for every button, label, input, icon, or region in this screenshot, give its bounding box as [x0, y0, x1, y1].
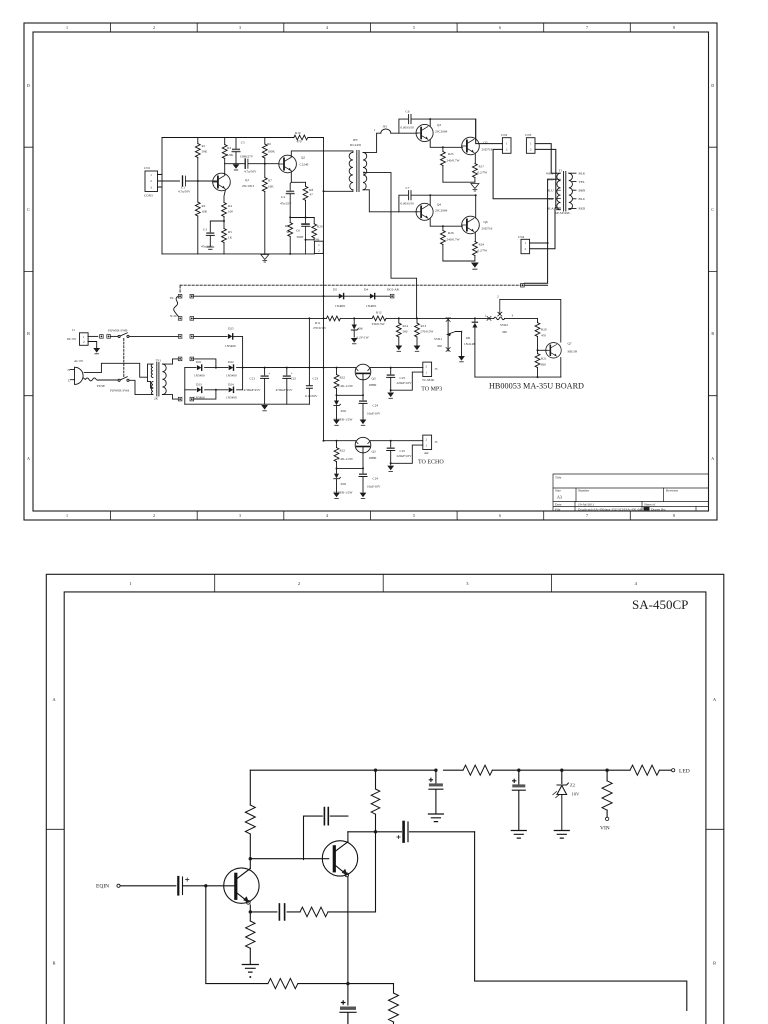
resistor R5 bottom: [268, 978, 298, 988]
resistor R3: [222, 145, 227, 159]
resistor R23 reg2: [336, 441, 338, 448]
svg-text:N.20: N.20: [170, 314, 177, 318]
svg-text:ZD1: ZD1: [341, 409, 347, 413]
svg-text:1: 1: [66, 513, 68, 518]
svg-text:6: 6: [499, 513, 501, 518]
svg-text:D21: D21: [196, 360, 202, 364]
capacitor C4: [286, 191, 294, 194]
svg-text:CN1: CN1: [144, 166, 151, 170]
svg-text:R2: R2: [202, 204, 206, 208]
transistor Q4 2SC2064: [416, 203, 433, 220]
wire Q2 emitter column: [347, 877, 349, 1005]
capacitor C23: [308, 318, 310, 404]
svg-text:HB00053 MA-35U BOARD: HB00053 MA-35U BOARD: [489, 381, 584, 391]
svg-text:1: 1: [525, 241, 527, 245]
svg-text:+: +: [269, 372, 271, 376]
resistor R13: [416, 318, 418, 323]
svg-text:YLW: YLW: [547, 197, 555, 201]
svg-text:D23: D23: [196, 382, 202, 386]
wire pp lower bottom rail: [443, 260, 475, 262]
sheet1 margin column ticks: [111, 23, 631, 520]
svg-text:100: 100: [228, 210, 233, 214]
resistor R26: [442, 226, 444, 230]
svg-text:C4: C4: [281, 195, 285, 199]
resistor R8: [305, 182, 307, 186]
svg-text:2SC2064: 2SC2064: [435, 130, 448, 134]
resistor R8 VIN: [605, 769, 608, 772]
svg-text:7: 7: [586, 513, 588, 518]
svg-text:R5: R5: [228, 230, 232, 234]
capacitor C7: [517, 769, 520, 772]
svg-text:1N5400: 1N5400: [226, 396, 237, 400]
svg-text:2SD718: 2SD718: [482, 148, 493, 152]
svg-text:1N5400: 1N5400: [194, 396, 205, 400]
connector CN1: [145, 171, 158, 192]
capacitor C2: [244, 159, 246, 168]
resistor R1: [195, 144, 200, 158]
squiggle wire row1-row2: [174, 296, 179, 316]
svg-text:C6: C6: [406, 110, 410, 114]
potentiometer SVR1: [447, 320, 449, 350]
svg-text:2K: 2K: [154, 397, 159, 401]
svg-text:100K: 100K: [268, 150, 276, 154]
svg-text:1: 1: [530, 142, 532, 146]
svg-text:10uF/10V: 10uF/10V: [367, 412, 381, 416]
svg-text:D: D: [711, 83, 714, 88]
svg-text:C3: C3: [203, 228, 207, 232]
svg-text:560: 560: [403, 330, 408, 334]
resistor R6 bottom right: [393, 984, 395, 993]
wire fuse to SWA: [98, 379, 118, 381]
svg-text:5: 5: [413, 25, 415, 30]
svg-text:2: 2: [153, 25, 155, 30]
svg-text:D: D: [27, 83, 30, 88]
zener ZD2 reg2: [334, 474, 339, 479]
transistor Q8 D880 reg1: [355, 364, 371, 380]
svg-text:R20: R20: [541, 328, 547, 332]
sheet2 outer border frame: [46, 574, 724, 1024]
svg-text:LED: LED: [679, 769, 690, 775]
svg-text:J3: J3: [435, 367, 438, 371]
svg-text:56: 56: [286, 230, 290, 234]
resistor R22 reg1: [336, 368, 338, 375]
svg-text:3: 3: [239, 25, 241, 30]
wire Q7 bottom rail: [475, 376, 561, 378]
capacitor C4 feedback: [279, 904, 284, 920]
resistor R9: [288, 223, 293, 237]
svg-text:FUSE: FUSE: [97, 384, 105, 388]
resistor R3 emitter: [246, 921, 255, 948]
svg-text:2: 2: [506, 148, 508, 152]
svg-text:Number: Number: [578, 489, 590, 493]
svg-text:D24: D24: [228, 382, 234, 386]
svg-text:1N5400: 1N5400: [226, 374, 237, 378]
svg-text:220uF/10V: 220uF/10V: [397, 381, 413, 385]
svg-text:R8: R8: [309, 188, 313, 192]
svg-text:D5: D5: [333, 288, 337, 292]
svg-text:4: 4: [635, 581, 638, 586]
svg-text:Size: Size: [555, 489, 561, 493]
wire CN3 pin2 to T1: [535, 149, 557, 208]
wire Q5 emitter / resistor R17: [474, 153, 476, 164]
wire bottom ground rail: [185, 403, 310, 405]
svg-text:3: 3: [466, 581, 469, 586]
svg-text:D25: D25: [228, 327, 234, 331]
connector squares row2: [178, 317, 182, 321]
capacitor C26 reg2: [359, 473, 367, 476]
svg-text:C23: C23: [313, 377, 319, 381]
svg-text:D6: D6: [359, 327, 363, 331]
diode D6 1N4148: [474, 318, 476, 322]
svg-text:2SC2064: 2SC2064: [435, 209, 448, 213]
transformer TP1 core: [157, 363, 159, 397]
resistor R19: [313, 218, 315, 224]
svg-text:240/0.7W: 240/0.7W: [447, 159, 461, 163]
wire row5 right to bridge: [194, 390, 216, 399]
svg-text:47: 47: [310, 193, 314, 197]
wire output line: [348, 831, 475, 833]
svg-text:DC IN: DC IN: [67, 337, 77, 341]
switch POWER SWB: [118, 335, 120, 337]
svg-text:BRN: BRN: [579, 189, 586, 193]
wire CN3 pin1 to T1: [535, 144, 557, 174]
transistor Q1 2SC1815: [213, 173, 231, 191]
wire T1 left taps: [557, 179, 561, 208]
resistor R14: [398, 318, 400, 323]
wire Q7 emitter down: [560, 358, 562, 378]
svg-text:1N4001: 1N4001: [335, 304, 346, 308]
wire Q6 emitter / resistor R24: [474, 232, 476, 242]
svg-text:SVR2: SVR2: [500, 323, 508, 327]
svg-text:B: B: [52, 961, 55, 966]
resistor R7 rail: [444, 769, 464, 771]
transistor Q5 2SD718: [462, 137, 480, 155]
wire R9/R8 node: [290, 217, 314, 219]
svg-text:Q2: Q2: [301, 156, 305, 160]
resistor R1 collector load: [249, 834, 251, 859]
resistor R4 feedback: [300, 907, 328, 917]
svg-text:3: 3: [512, 314, 514, 318]
svg-text:2: 2: [461, 330, 463, 334]
svg-text:C7: C7: [406, 186, 410, 190]
transistor Q3 2SC2064: [416, 124, 433, 141]
Miller capacitor C2: [304, 816, 348, 860]
wire Q1 emitter column: [224, 190, 226, 203]
svg-text:2: 2: [83, 340, 85, 344]
wire Q6 collector up: [475, 195, 477, 218]
svg-text:JP1: JP1: [383, 125, 388, 129]
wire to IPT primary bottom: [324, 190, 353, 192]
svg-text:8: 8: [673, 25, 675, 30]
wire plug top to TP1: [84, 363, 153, 381]
svg-text:A: A: [52, 697, 56, 702]
svg-text:D880: D880: [369, 456, 377, 460]
resistor R5: [222, 229, 227, 243]
resistor R10: [294, 135, 308, 140]
wire C27 to J3 pin1: [391, 445, 423, 463]
svg-text:R4: R4: [228, 204, 232, 208]
svg-text:10K: 10K: [202, 210, 208, 214]
zener D6 6.2V: [353, 318, 355, 324]
svg-text:Q6: Q6: [484, 220, 488, 224]
svg-text:2: 2: [298, 581, 300, 586]
wire B+ vertical feed: [323, 138, 325, 297]
svg-text:R14: R14: [403, 324, 409, 328]
svg-text:R22: R22: [340, 376, 346, 380]
svg-text:820: 820: [541, 363, 546, 367]
svg-text:AR: AR: [424, 451, 429, 455]
svg-text:C24: C24: [373, 477, 379, 481]
wire TP1 secondary top to row4: [162, 359, 178, 364]
svg-text:YEL: YEL: [579, 180, 585, 184]
svg-text:4.7u/50V: 4.7u/50V: [244, 170, 257, 174]
svg-text:D22: D22: [228, 360, 234, 364]
svg-text:R20: R20: [317, 225, 323, 229]
svg-text:1: 1: [426, 444, 428, 448]
switch POWER SWA: [118, 379, 120, 381]
resistor R9 LED: [607, 769, 630, 771]
AC plug: [75, 367, 84, 384]
resistor R20: [537, 318, 539, 322]
svg-text:5.9K: 5.9K: [227, 153, 234, 157]
svg-text:BLA: BLA: [547, 206, 554, 210]
svg-text:270/0.5W: 270/0.5W: [420, 330, 434, 334]
svg-text:POWER SWB: POWER SWB: [108, 329, 128, 333]
svg-text:2: 2: [153, 513, 155, 518]
wire reg1 rail: [324, 367, 423, 369]
capacitor C21: [264, 368, 266, 376]
svg-text:3: 3: [150, 185, 152, 189]
wire Q9 emitter column: [362, 453, 364, 473]
svg-text:47u/25V: 47u/25V: [280, 202, 292, 206]
transistor Q2: [322, 841, 357, 876]
svg-text:Z2: Z2: [570, 783, 575, 788]
ground C21: [261, 405, 268, 411]
svg-text:1: 1: [83, 335, 85, 339]
wire SWB to row3: [129, 335, 178, 337]
wire to switch SWB: [110, 335, 118, 337]
wire base feedback bottom line: [206, 886, 394, 984]
connector CN2: [502, 138, 511, 154]
svg-text:CN4: CN4: [518, 235, 525, 239]
svg-text:0.0033/50: 0.0033/50: [401, 202, 415, 206]
transformer IPT core: [357, 151, 359, 192]
svg-text:D:\gjb-pcb\SA-450dsps-35U\SCH\: D:\gjb-pcb\SA-450dsps-35U\SCH\SA-450.ddb: [578, 507, 642, 511]
transformer TP1 primary coil: [151, 364, 153, 394]
sheet1 margin numbers and letters: [27, 25, 714, 518]
wire row1 line: [194, 295, 390, 297]
transformer T1 left coil: [557, 173, 561, 210]
svg-text:AC IN: AC IN: [74, 359, 84, 363]
svg-text:BD139: BD139: [568, 350, 578, 354]
svg-text:2: 2: [426, 438, 428, 442]
wire Q2 emitter column: [290, 171, 291, 190]
capacitor C6 0.0033 top: [399, 119, 476, 133]
svg-text:2SD716: 2SD716: [482, 227, 493, 231]
svg-text:0.0033/50: 0.0033/50: [401, 126, 415, 130]
svg-text:1: 1: [374, 128, 376, 132]
sheet2 inner border frame: [64, 592, 706, 1024]
wire top rail: [250, 769, 436, 771]
resistor R11: [326, 316, 340, 321]
wire T1 RED down to dashed node: [524, 179, 556, 283]
svg-text:J1: J1: [72, 328, 75, 332]
svg-text:59K: 59K: [202, 150, 208, 154]
svg-text:EQIN: EQIN: [96, 884, 109, 890]
title block texts: [555, 476, 678, 512]
capacitor C3 output coupling: [402, 822, 405, 842]
svg-text:R24: R24: [479, 243, 485, 247]
connector squares row1: [178, 294, 182, 298]
wire SVR2 top loop to Q7 collector: [500, 299, 561, 342]
svg-text:R10: R10: [295, 131, 301, 135]
svg-text:0.1u/50V: 0.1u/50V: [305, 394, 318, 398]
svg-text:A: A: [711, 456, 714, 461]
wire bridge lower row: [185, 368, 243, 390]
wire T1 right stubs: [569, 173, 576, 208]
wire SWA to TP1 bottom: [129, 380, 153, 394]
svg-text:Sheet of: Sheet of: [644, 503, 656, 507]
power rail right: capacitor C6: [434, 769, 437, 772]
wire CN4 pin1: [530, 242, 548, 244]
svg-text:D6: D6: [466, 336, 470, 340]
svg-text:C24: C24: [373, 404, 379, 408]
ground hollow arrow bottom: [261, 255, 269, 263]
wire bridge upper row: [185, 367, 324, 369]
svg-text:Q3: Q3: [372, 450, 376, 454]
capacitor C7 0.0033 bottom: [399, 195, 476, 212]
capacitor C5: [235, 138, 237, 164]
svg-text:2: 2: [318, 249, 320, 253]
wire to C3: [210, 221, 224, 232]
svg-text:10uF/10V: 10uF/10V: [367, 485, 381, 489]
wire C1 to Q1 base: [186, 180, 217, 182]
wire row4 right to bridge: [194, 359, 216, 368]
svg-text:T1: T1: [559, 169, 563, 173]
svg-text:270/0.5W: 270/0.5W: [313, 326, 327, 330]
connector square pair J1: [100, 335, 104, 339]
wire T1 BLA down to CN4: [530, 208, 555, 249]
sheet2 margin ticks: [46, 574, 724, 829]
svg-text:R11: R11: [315, 321, 321, 325]
wire C1 to Q1 base: [183, 885, 236, 887]
svg-text:Title: Title: [555, 476, 562, 480]
wire IPT secondary bottom down: [363, 190, 417, 212]
svg-text:1N4001: 1N4001: [366, 304, 377, 308]
svg-text:R22: R22: [340, 449, 346, 453]
svg-text:Q1: Q1: [245, 178, 249, 182]
connector J1 DC IN: [80, 333, 89, 346]
node LED: [672, 769, 675, 772]
svg-text:R25: R25: [448, 152, 454, 156]
ground Q1 emitter: [242, 965, 258, 973]
svg-text:2: 2: [150, 179, 152, 183]
svg-text:R21: R21: [541, 357, 547, 361]
fuse: [83, 378, 98, 381]
svg-text:4: 4: [326, 25, 328, 30]
svg-text:Revision: Revision: [666, 489, 678, 493]
diode D5: [339, 294, 344, 299]
connector CN4: [521, 239, 530, 253]
svg-text:R13: R13: [421, 324, 427, 328]
wire Q1 collector column: [249, 859, 251, 869]
svg-text:4: 4: [326, 513, 328, 518]
svg-text:ID-2435: ID-2435: [350, 143, 362, 147]
svg-text:2: 2: [530, 148, 532, 152]
connector squares row5: [178, 397, 182, 401]
wire Q3 emitter to Q5 base: [430, 140, 462, 148]
capacitor C1: [182, 176, 184, 186]
zener Z1: [519, 769, 607, 771]
svg-text:A: A: [27, 456, 30, 461]
svg-text:POWER SWA: POWER SWA: [110, 389, 130, 393]
svg-text:1: 1: [318, 243, 320, 247]
svg-text:IPT: IPT: [353, 138, 358, 142]
svg-text:R7: R7: [268, 179, 272, 183]
svg-text:TP1: TP1: [156, 359, 162, 363]
potentiometer SVR2: [489, 317, 538, 319]
svg-text:TC-M3K: TC-M3K: [422, 378, 435, 382]
svg-text:7: 7: [586, 25, 588, 30]
svg-text:C2240: C2240: [300, 163, 309, 167]
transistor Q2 C2240: [279, 155, 297, 173]
wire IPT secondary tap to B line: [365, 173, 417, 319]
wire Q1 collector up: [224, 164, 226, 175]
svg-text:2: 2: [426, 365, 428, 369]
svg-text:B: B: [713, 961, 716, 966]
resistor R2: [195, 202, 200, 216]
svg-text:560: 560: [502, 330, 507, 334]
svg-text:1: 1: [485, 314, 487, 318]
svg-text:C25: C25: [400, 376, 406, 380]
wire EQIN to C1: [120, 885, 176, 887]
svg-text:470: 470: [297, 140, 302, 144]
wire bottom rail: [162, 253, 314, 255]
svg-text:2: 2: [525, 247, 527, 251]
svg-text:A3: A3: [557, 495, 562, 500]
wire CN2 pin1: [476, 119, 503, 144]
svg-text:R17: R17: [479, 165, 485, 169]
wire Q7 base: [538, 349, 548, 351]
svg-text:1N5400: 1N5400: [194, 374, 205, 378]
wire CN2 pin2 loop: [493, 149, 553, 198]
square node dashed end: [521, 283, 525, 287]
svg-text:R6: R6: [267, 142, 271, 146]
svg-text:TO ECHO: TO ECHO: [418, 460, 444, 466]
svg-text:BLK: BLK: [579, 172, 586, 176]
svg-text:6.2V/1W: 6.2V/1W: [357, 336, 370, 340]
svg-text:D880: D880: [369, 383, 377, 387]
wire row2 / main 12V rail: [194, 317, 489, 319]
svg-text:C25: C25: [400, 449, 406, 453]
svg-text:R3: R3: [227, 146, 231, 150]
svg-text:5: 5: [413, 513, 415, 518]
sheet1 margin row ticks: [24, 147, 717, 396]
wire top rail: [162, 137, 324, 139]
connector squares row4: [178, 357, 182, 361]
svg-text:CN3: CN3: [525, 133, 532, 137]
svg-text:File: File: [555, 507, 561, 511]
transformer T1 right coil: [569, 173, 573, 210]
svg-text:Drawn By:: Drawn By:: [651, 507, 666, 511]
ground filled arrow lower: [471, 263, 479, 270]
resistor R21: [537, 350, 539, 353]
wire emitter node to R8: [291, 181, 305, 183]
svg-text:Date: Date: [555, 503, 562, 507]
wire B+ feed vertical: [323, 296, 325, 441]
svg-text:J3: J3: [435, 440, 438, 444]
wire JP1 to Q3 base: [391, 132, 418, 134]
